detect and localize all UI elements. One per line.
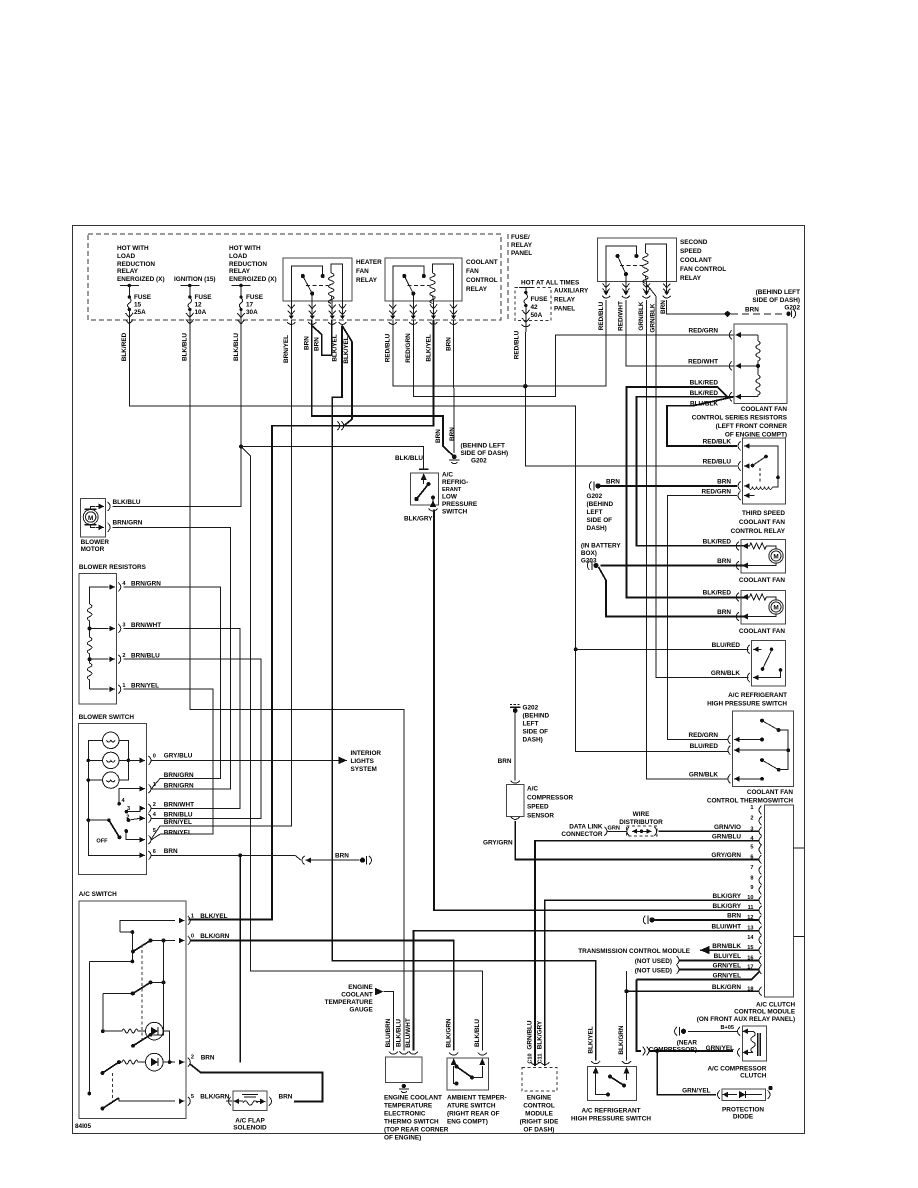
svg-text:RED/BLU: RED/BLU (703, 459, 732, 466)
hot at all times dashed box (515, 288, 551, 321)
svg-text:FAN CONTROL: FAN CONTROL (680, 266, 726, 273)
fuse 42 50A (519, 287, 533, 289)
svg-text:GRN/BLK: GRN/BLK (711, 670, 740, 677)
series resistor R1 (756, 335, 761, 366)
svg-text:0: 0 (191, 934, 194, 940)
svg-text:SIDE OF DASH): SIDE OF DASH) (461, 450, 509, 457)
svg-text:FUSE: FUSE (195, 294, 213, 301)
svg-text:GRY/GRN: GRY/GRN (483, 840, 513, 847)
svg-text:RELAY: RELAY (229, 268, 251, 275)
svg-text:BRN: BRN (717, 479, 731, 486)
wire BRN diagonal branch to coolant fan 2 (599, 567, 747, 617)
svg-text:17: 17 (246, 302, 254, 309)
svg-text:ENERGIZED (X): ENERGIZED (X) (117, 276, 165, 283)
wire GRN/YEL to compressor clutch (637, 980, 642, 1051)
svg-text:DASH): DASH) (587, 525, 607, 532)
fuse 17 30A (232, 285, 251, 287)
module ticks to border (793, 847, 804, 849)
svg-text:2: 2 (191, 1055, 194, 1061)
svg-text:REDUCTION: REDUCTION (229, 261, 267, 268)
engine coolant temperature gauge arrow (384, 992, 394, 1051)
wire BLK/YEL row to A/C switch pin1 (189, 320, 434, 920)
svg-text:BRN/GRN: BRN/GRN (113, 520, 143, 527)
svg-text:IGNITION (15): IGNITION (15) (174, 276, 216, 283)
svg-text:BLU/RED: BLU/RED (712, 642, 741, 649)
svg-text:LIGHTS: LIGHTS (351, 758, 375, 765)
svg-text:25A: 25A (134, 309, 146, 316)
blower motor box (81, 498, 106, 537)
svg-text:HIGH PRESSURE SWITCH: HIGH PRESSURE SWITCH (571, 1116, 651, 1123)
a/c switch resistor LED row A (101, 1029, 105, 1033)
wire BRN/WHT resistor pin3 to blower switch pin2 (124, 629, 241, 809)
svg-text:6: 6 (153, 849, 156, 855)
svg-text:COOLANT: COOLANT (680, 257, 712, 264)
svg-text:GRY/BLU: GRY/BLU (164, 753, 193, 760)
relay heater fan K1 coil (328, 273, 334, 303)
svg-text:OF ENGINE): OF ENGINE) (384, 1135, 421, 1142)
blower switch lamp 3 (103, 772, 119, 788)
wire BLK/BLU jog branch down to ambient temp switch (241, 447, 482, 1051)
svg-text:BRN: BRN (435, 429, 442, 443)
svg-text:BOX): BOX) (581, 550, 597, 557)
svg-text:CONTROL SERIES RESISTORS: CONTROL SERIES RESISTORS (692, 415, 788, 422)
relay second speed coolant fan control K3 box (597, 238, 676, 282)
svg-text:CLUTCH: CLUTCH (740, 1073, 767, 1080)
svg-text:TEMPERATURE: TEMPERATURE (384, 1103, 433, 1110)
ambient temp switch contacts (451, 1058, 457, 1065)
svg-text:FAN: FAN (466, 268, 479, 275)
svg-text:BLU/BLK: BLU/BLK (690, 401, 718, 408)
svg-text:A/C CLUTCH: A/C CLUTCH (756, 1002, 795, 1009)
relay coolant fan control K2 box (385, 258, 462, 301)
relay heater fan K1 internal contacts (291, 266, 328, 301)
svg-text:AUXILIARY: AUXILIARY (554, 288, 589, 295)
wire BLU/YEL pin16 not used (679, 959, 759, 961)
svg-text:SOLENOID: SOLENOID (233, 1125, 267, 1132)
relay coolant fan control K2 internal contacts (393, 266, 430, 301)
svg-text:A/C REFRIGERANT: A/C REFRIGERANT (582, 1108, 641, 1115)
wire BLK/RED fan feed B (636, 397, 748, 546)
svg-text:BRN/WHT: BRN/WHT (131, 622, 161, 629)
svg-text:CONNECTOR: CONNECTOR (561, 831, 602, 838)
wire GRY/GRN pin6 from speed sensor (515, 821, 758, 859)
svg-text:GRN/VIO: GRN/VIO (714, 824, 741, 831)
wire distributor dashed box (627, 826, 658, 836)
svg-text:2: 2 (153, 802, 156, 808)
svg-text:(RIGHT REAR OF: (RIGHT REAR OF (447, 1111, 500, 1118)
page border frame (73, 226, 805, 1134)
svg-text:BRN: BRN (314, 337, 321, 351)
svg-text:BRN: BRN (745, 307, 759, 314)
svg-text:G203: G203 (581, 558, 597, 565)
blower switch off arm (107, 818, 111, 822)
fuse 12 10A (181, 285, 200, 287)
svg-text:RED/GRN: RED/GRN (689, 732, 719, 739)
svg-text:ENERGIZED (X): ENERGIZED (X) (229, 276, 277, 283)
blower switch lamp rails (88, 740, 102, 820)
wire BLK/GRY pin11 from low pressure switch (434, 510, 759, 911)
svg-text:5: 5 (153, 828, 156, 834)
wire GRN/VIO pin3 from wire distributor (659, 830, 759, 832)
svg-text:2: 2 (750, 816, 753, 822)
wire BRN second speed relay pin4 to ground G202 right (667, 300, 728, 314)
svg-text:BRN/GRN: BRN/GRN (164, 772, 194, 779)
svg-text:WIRE: WIRE (633, 811, 650, 818)
svg-text:RED/BLU: RED/BLU (513, 330, 520, 359)
svg-text:RELAY: RELAY (554, 297, 576, 304)
svg-text:(NOT USED): (NOT USED) (635, 958, 672, 965)
svg-text:M: M (773, 554, 778, 561)
third speed relay coil (749, 487, 773, 489)
blower switch pin 0 row (119, 759, 140, 761)
svg-text:BRN/BLU: BRN/BLU (131, 653, 160, 660)
wire BRN/YEL heater relay pin1 down to blower switch (152, 320, 292, 839)
svg-text:BLK/RED: BLK/RED (690, 380, 719, 387)
module pin 11 bracket (759, 906, 762, 915)
blower motor M symbol (83, 510, 98, 525)
svg-text:SIDE OF DASH): SIDE OF DASH) (752, 297, 800, 304)
svg-text:BLK/GRN: BLK/GRN (200, 933, 229, 940)
wire BLK/BLU branch to low pressure switch (241, 447, 424, 470)
a/c refrigerant low pressure switch box (410, 473, 438, 505)
svg-text:(BEHIND LEFT: (BEHIND LEFT (461, 443, 505, 450)
wire BRN/BLK pin15 to transmission control module (700, 949, 759, 951)
thermoswitch contacts lower (760, 758, 764, 762)
module pin 14 bracket (759, 936, 762, 945)
svg-text:BLU/RED: BLU/RED (690, 743, 719, 750)
svg-text:GRN/BLK: GRN/BLK (649, 303, 656, 332)
blower resistors pin 2 (118, 655, 121, 664)
svg-text:BRN: BRN (717, 558, 731, 565)
svg-text:BRN: BRN (727, 913, 741, 920)
svg-text:10A: 10A (195, 309, 207, 316)
svg-text:CONTROL MODULE: CONTROL MODULE (734, 1009, 796, 1016)
coolant fan 1 box (741, 540, 786, 574)
thermoswitch rail (779, 730, 789, 770)
svg-text:CONTROL RELAY: CONTROL RELAY (731, 528, 786, 535)
svg-text:FUSE/: FUSE/ (511, 234, 530, 241)
svg-text:BRN: BRN (606, 479, 620, 486)
wire BRN jumper pins 2-3 heater relay (312, 320, 332, 356)
svg-text:SENSOR: SENSOR (527, 813, 554, 820)
blower switch ground rail to pin6 (88, 820, 140, 855)
blower switch lamp 1 (103, 732, 119, 748)
wire BLK/BLU from fuse 12 to engine coolant thermo switch (190, 324, 404, 1051)
svg-text:GRY/GRN: GRY/GRN (711, 852, 741, 859)
svg-text:(NEAR: (NEAR (677, 1040, 698, 1047)
wire BRN bold down to a/c switch pin2 (239, 855, 241, 1062)
wire RED/GRN third speed relay pin4 to thermoswitch pin1 (667, 496, 737, 740)
svg-text:PRESSURE: PRESSURE (442, 501, 478, 508)
module pin 10 bracket (759, 896, 762, 905)
a/c refrigerant high pressure switch bottom box (588, 1067, 637, 1101)
svg-text:ENGINE COOLANT: ENGINE COOLANT (384, 1095, 442, 1102)
svg-text:TRANSMISSION CONTROL MODULE: TRANSMISSION CONTROL MODULE (578, 948, 690, 955)
svg-text:ATURE SWITCH: ATURE SWITCH (447, 1103, 496, 1110)
svg-text:FUSE: FUSE (531, 296, 549, 303)
wire BLK/YEL straight branch long run to a/c refrigerant high pressure switch (332, 326, 596, 1061)
svg-text:B+05: B+05 (720, 1025, 734, 1031)
svg-text:OF ENGINE COMPT): OF ENGINE COMPT) (725, 432, 787, 439)
clutch coil (751, 1031, 756, 1052)
svg-text:COMPRESSOR): COMPRESSOR) (649, 1047, 697, 1054)
svg-text:BLK/YEL: BLK/YEL (587, 1026, 594, 1053)
wire BRN/YEL resistor pin1 to blower switch pin5 (124, 689, 214, 840)
svg-text:LOAD: LOAD (117, 253, 135, 260)
svg-text:(ON FRONT AUX RELAY PANEL): (ON FRONT AUX RELAY PANEL) (697, 1016, 795, 1023)
a/c switch ganged dashed link (141, 945, 143, 1040)
svg-text:COOLANT FAN: COOLANT FAN (739, 628, 786, 635)
svg-text:50A: 50A (531, 312, 543, 319)
coolant fan control thermoswitch box (732, 711, 793, 787)
wire BRN heater relay pin2 to ground G202 (312, 320, 453, 456)
coolant fan 2 motor M (769, 600, 783, 614)
svg-text:BLOWER: BLOWER (81, 539, 110, 546)
svg-text:G202: G202 (587, 493, 603, 500)
coolant fan control series resistors box (734, 324, 787, 404)
thermoswitch contacts upper (760, 719, 764, 723)
svg-text:(RIGHT SIDE: (RIGHT SIDE (520, 1119, 559, 1126)
engine coolant temperature electronic thermo switch box (386, 1057, 423, 1083)
svg-text:RED/BLU: RED/BLU (598, 301, 605, 330)
a/c refrigerant high pressure switch box (752, 641, 786, 687)
svg-text:COOLANT FAN: COOLANT FAN (747, 789, 794, 796)
svg-text:CONTROL THERMOSWITCH: CONTROL THERMOSWITCH (707, 798, 794, 805)
svg-text:A/C SWITCH: A/C SWITCH (79, 891, 117, 898)
svg-text:BRN: BRN (335, 853, 349, 860)
svg-text:COOLANT: COOLANT (341, 992, 373, 999)
a/c flap solenoid box (233, 1091, 267, 1111)
wire GRN/BLK branch to high pressure switch (646, 284, 748, 678)
svg-text:BRN/YEL: BRN/YEL (283, 335, 290, 363)
relay second speed coolant fan control K3 coil (643, 253, 649, 283)
node junction dot red/blu (523, 384, 527, 388)
blower resistor chain (90, 587, 108, 604)
svg-text:BRN: BRN (717, 609, 731, 616)
thermo switch ground (402, 1084, 406, 1088)
svg-text:5: 5 (750, 845, 753, 851)
svg-text:A/C: A/C (527, 786, 538, 793)
module pin 5 bracket (759, 845, 762, 854)
svg-text:AMBIENT TEMPER-: AMBIENT TEMPER- (447, 1095, 507, 1102)
module pin 7 bracket (759, 866, 762, 875)
a/c switch section 3 (131, 1044, 135, 1048)
svg-text:BLK/BLU: BLK/BLU (113, 499, 141, 506)
module pin 15 bracket (759, 946, 762, 955)
svg-text:INTERIOR: INTERIOR (351, 750, 382, 757)
svg-text:(NOT USED): (NOT USED) (635, 967, 672, 974)
svg-text:PANEL: PANEL (511, 250, 532, 257)
svg-text:G202: G202 (784, 305, 800, 312)
svg-text:BLK/GRN: BLK/GRN (618, 1025, 625, 1054)
svg-text:BLK/YEL: BLK/YEL (343, 336, 350, 363)
svg-text:BLK/BLU: BLK/BLU (182, 333, 189, 361)
svg-text:COOLANT: COOLANT (466, 259, 498, 266)
svg-text:42: 42 (531, 304, 539, 311)
svg-text:M: M (88, 515, 93, 522)
svg-text:ENGINE: ENGINE (527, 1095, 552, 1102)
svg-text:BLK/GRY: BLK/GRY (712, 893, 741, 900)
svg-text:RED/GRN: RED/GRN (702, 489, 732, 496)
svg-text:ENG COMPT): ENG COMPT) (447, 1119, 488, 1126)
svg-text:GRN/BLK: GRN/BLK (638, 301, 645, 330)
svg-text:1: 1 (122, 683, 125, 689)
svg-text:SIDE OF: SIDE OF (587, 517, 613, 524)
svg-text:GRN/YEL: GRN/YEL (713, 962, 742, 969)
module pin 1 bracket (759, 806, 762, 815)
module pin 4 bracket (759, 837, 762, 846)
svg-text:BLK/BLU: BLK/BLU (474, 1019, 481, 1047)
svg-text:BRN/YEL: BRN/YEL (131, 683, 159, 690)
svg-text:ENGINE: ENGINE (348, 984, 373, 991)
svg-text:30A: 30A (246, 309, 258, 316)
wire BRN/GRN from motor down to blower switch pin1 (113, 527, 231, 789)
svg-text:A/C: A/C (442, 472, 453, 479)
wire break connector symbol (338, 422, 344, 431)
svg-text:FAN: FAN (356, 268, 369, 275)
relay coolant fan control K2 coil (430, 273, 436, 303)
module pin 8 bracket (759, 876, 762, 885)
wire BRN pin12 inline ground (652, 919, 759, 921)
svg-text:BRN/GRN: BRN/GRN (164, 782, 194, 789)
high pressure switch contacts (770, 648, 774, 652)
svg-text:RELAY: RELAY (356, 277, 378, 284)
wire BLK/GRY from low pressure switch (433, 510, 435, 513)
svg-text:CONTROL: CONTROL (523, 1103, 555, 1110)
svg-text:LEFT: LEFT (587, 509, 603, 516)
a/c switch section 2 (131, 992, 135, 996)
node junction dot fuse17 (239, 445, 243, 449)
svg-text:HIGH PRESSURE SWITCH: HIGH PRESSURE SWITCH (707, 701, 787, 708)
ambient temperature switch box (447, 1058, 488, 1090)
blower motor pin BLK/BLU (91, 506, 95, 509)
svg-text:BLK/YEL: BLK/YEL (200, 913, 227, 920)
svg-text:PANEL: PANEL (554, 306, 575, 313)
ground G202 inverted symbol (510, 704, 521, 706)
svg-text:RED/BLK: RED/BLK (703, 439, 732, 446)
blower resistors pin 4 (118, 583, 121, 592)
relay second speed coolant fan control K3 internal contacts (606, 246, 642, 282)
svg-text:THIRD SPEED: THIRD SPEED (742, 510, 785, 517)
svg-text:COMPRESSOR: COMPRESSOR (527, 795, 574, 802)
module pin 12 bracket (759, 916, 762, 925)
bottom hp switch contacts (608, 1075, 612, 1079)
svg-text:OFF: OFF (96, 839, 108, 845)
blower resistors box (79, 573, 116, 704)
wire B+05 into clutch pin1 (688, 1030, 738, 1032)
svg-text:BLOWER RESISTORS: BLOWER RESISTORS (79, 564, 147, 571)
svg-text:BLK/BLU: BLK/BLU (233, 333, 240, 361)
relay heater fan K1 box (283, 258, 352, 301)
wire BLK/GRN a/c switch pin0 to ambient temp switch (190, 941, 454, 1051)
svg-text:BLK/RED: BLK/RED (121, 332, 128, 361)
svg-text:BRN: BRN (304, 336, 311, 350)
relay heater fan K1 pin arrows (288, 301, 295, 317)
blower switch contact wires to pins (119, 789, 140, 804)
a/c switch section 1 (131, 950, 135, 954)
svg-text:BRN: BRN (445, 337, 452, 351)
a/c switch pin 1 internal (120, 921, 175, 933)
module pin 17 bracket (759, 965, 762, 974)
svg-text:BRN/BLU: BRN/BLU (164, 811, 193, 818)
svg-text:G202: G202 (523, 705, 539, 712)
svg-text:RELAY: RELAY (466, 286, 488, 293)
module pin 9 bracket (759, 886, 762, 895)
svg-text:GAUGE: GAUGE (349, 1007, 373, 1014)
svg-text:FUSE: FUSE (246, 294, 264, 301)
svg-text:MOTOR: MOTOR (81, 546, 105, 553)
svg-text:HOT AT ALL TIMES: HOT AT ALL TIMES (521, 280, 580, 287)
blower motor pin BRN/GRN (91, 525, 95, 528)
third speed relay internal switch (751, 464, 755, 468)
svg-text:BLK/RED: BLK/RED (690, 390, 719, 397)
engine control module dashed box (522, 1068, 557, 1092)
svg-text:GRN/BLU: GRN/BLU (527, 1020, 534, 1049)
svg-text:COOLANT FAN: COOLANT FAN (739, 577, 786, 584)
fuse/relay panel dashed box (88, 234, 501, 320)
svg-text:PROTECTION: PROTECTION (722, 1107, 764, 1114)
svg-text:BRN/GRN: BRN/GRN (131, 580, 161, 587)
svg-text:BRN/WHT: BRN/WHT (164, 801, 194, 808)
svg-text:BRN: BRN (449, 427, 456, 441)
svg-text:BLK/RED: BLK/RED (703, 590, 732, 597)
svg-text:BLK/GRN: BLK/GRN (200, 1094, 229, 1101)
svg-text:RED/WHT: RED/WHT (618, 301, 625, 331)
inline ground connector G203 symbol (587, 561, 589, 570)
svg-text:DATA LINK: DATA LINK (569, 824, 603, 831)
fuse 15 25A (120, 285, 139, 287)
wire BLU/WHT pin13 from engine coolant thermo switch (413, 931, 758, 1051)
wire GRN/YEL second into pin17 from compressor clutch net (637, 972, 760, 980)
svg-text:3: 3 (122, 623, 125, 629)
svg-text:FUSE: FUSE (134, 294, 152, 301)
wire BRN from G203 to third speed relay pin3 (600, 485, 737, 487)
svg-text:1: 1 (191, 914, 194, 920)
svg-text:(IN BATTERY: (IN BATTERY (581, 543, 621, 550)
svg-text:(BEHIND: (BEHIND (587, 501, 614, 508)
svg-text:2: 2 (122, 653, 125, 659)
svg-text:RED/GRN: RED/GRN (405, 333, 412, 363)
module pin 3 bracket (759, 827, 762, 836)
module pin 18 bracket (759, 987, 762, 996)
svg-text:BRN/YEL: BRN/YEL (164, 819, 192, 826)
svg-text:BLK/BLU: BLK/BLU (395, 455, 423, 462)
svg-text:MODULE: MODULE (525, 1111, 553, 1118)
svg-text:BLU/WHT: BLU/WHT (712, 924, 742, 931)
svg-text:A/C FLAP: A/C FLAP (235, 1118, 265, 1125)
svg-text:GRN/BLK: GRN/BLK (689, 771, 718, 778)
coolant fan 2 box (741, 591, 786, 625)
svg-text:DASH): DASH) (523, 737, 543, 744)
wire BRN from G203 to coolant fan 1 (601, 565, 747, 567)
svg-text:BRN/BLK: BRN/BLK (712, 943, 741, 950)
svg-text:BLU/WHT: BLU/WHT (405, 1018, 412, 1048)
wire RED/BLU fuse 42 down to third speed relay pin2 (525, 327, 737, 466)
svg-text:12: 12 (195, 302, 203, 309)
node junction dot BLU/RED branch (574, 647, 578, 651)
blower resistors pin 1 (118, 685, 121, 694)
svg-text:SYSTEM: SYSTEM (351, 766, 377, 773)
wire GRN/YEL pin17 not used (679, 969, 759, 971)
svg-text:DISTRIBUTOR: DISTRIBUTOR (619, 819, 663, 826)
wire BLU/RED to high pressure switch (576, 648, 749, 650)
svg-text:(TOP REAR CORNER: (TOP REAR CORNER (384, 1127, 449, 1134)
wire GRN/BLU pin4 from ECM C10 (535, 841, 759, 1066)
svg-text:RED/WHT: RED/WHT (688, 359, 718, 366)
series resistor pins (729, 330, 732, 339)
svg-text:A/C COMPRESSOR: A/C COMPRESSOR (707, 1066, 766, 1073)
blower resistors pin 3 (118, 624, 121, 633)
